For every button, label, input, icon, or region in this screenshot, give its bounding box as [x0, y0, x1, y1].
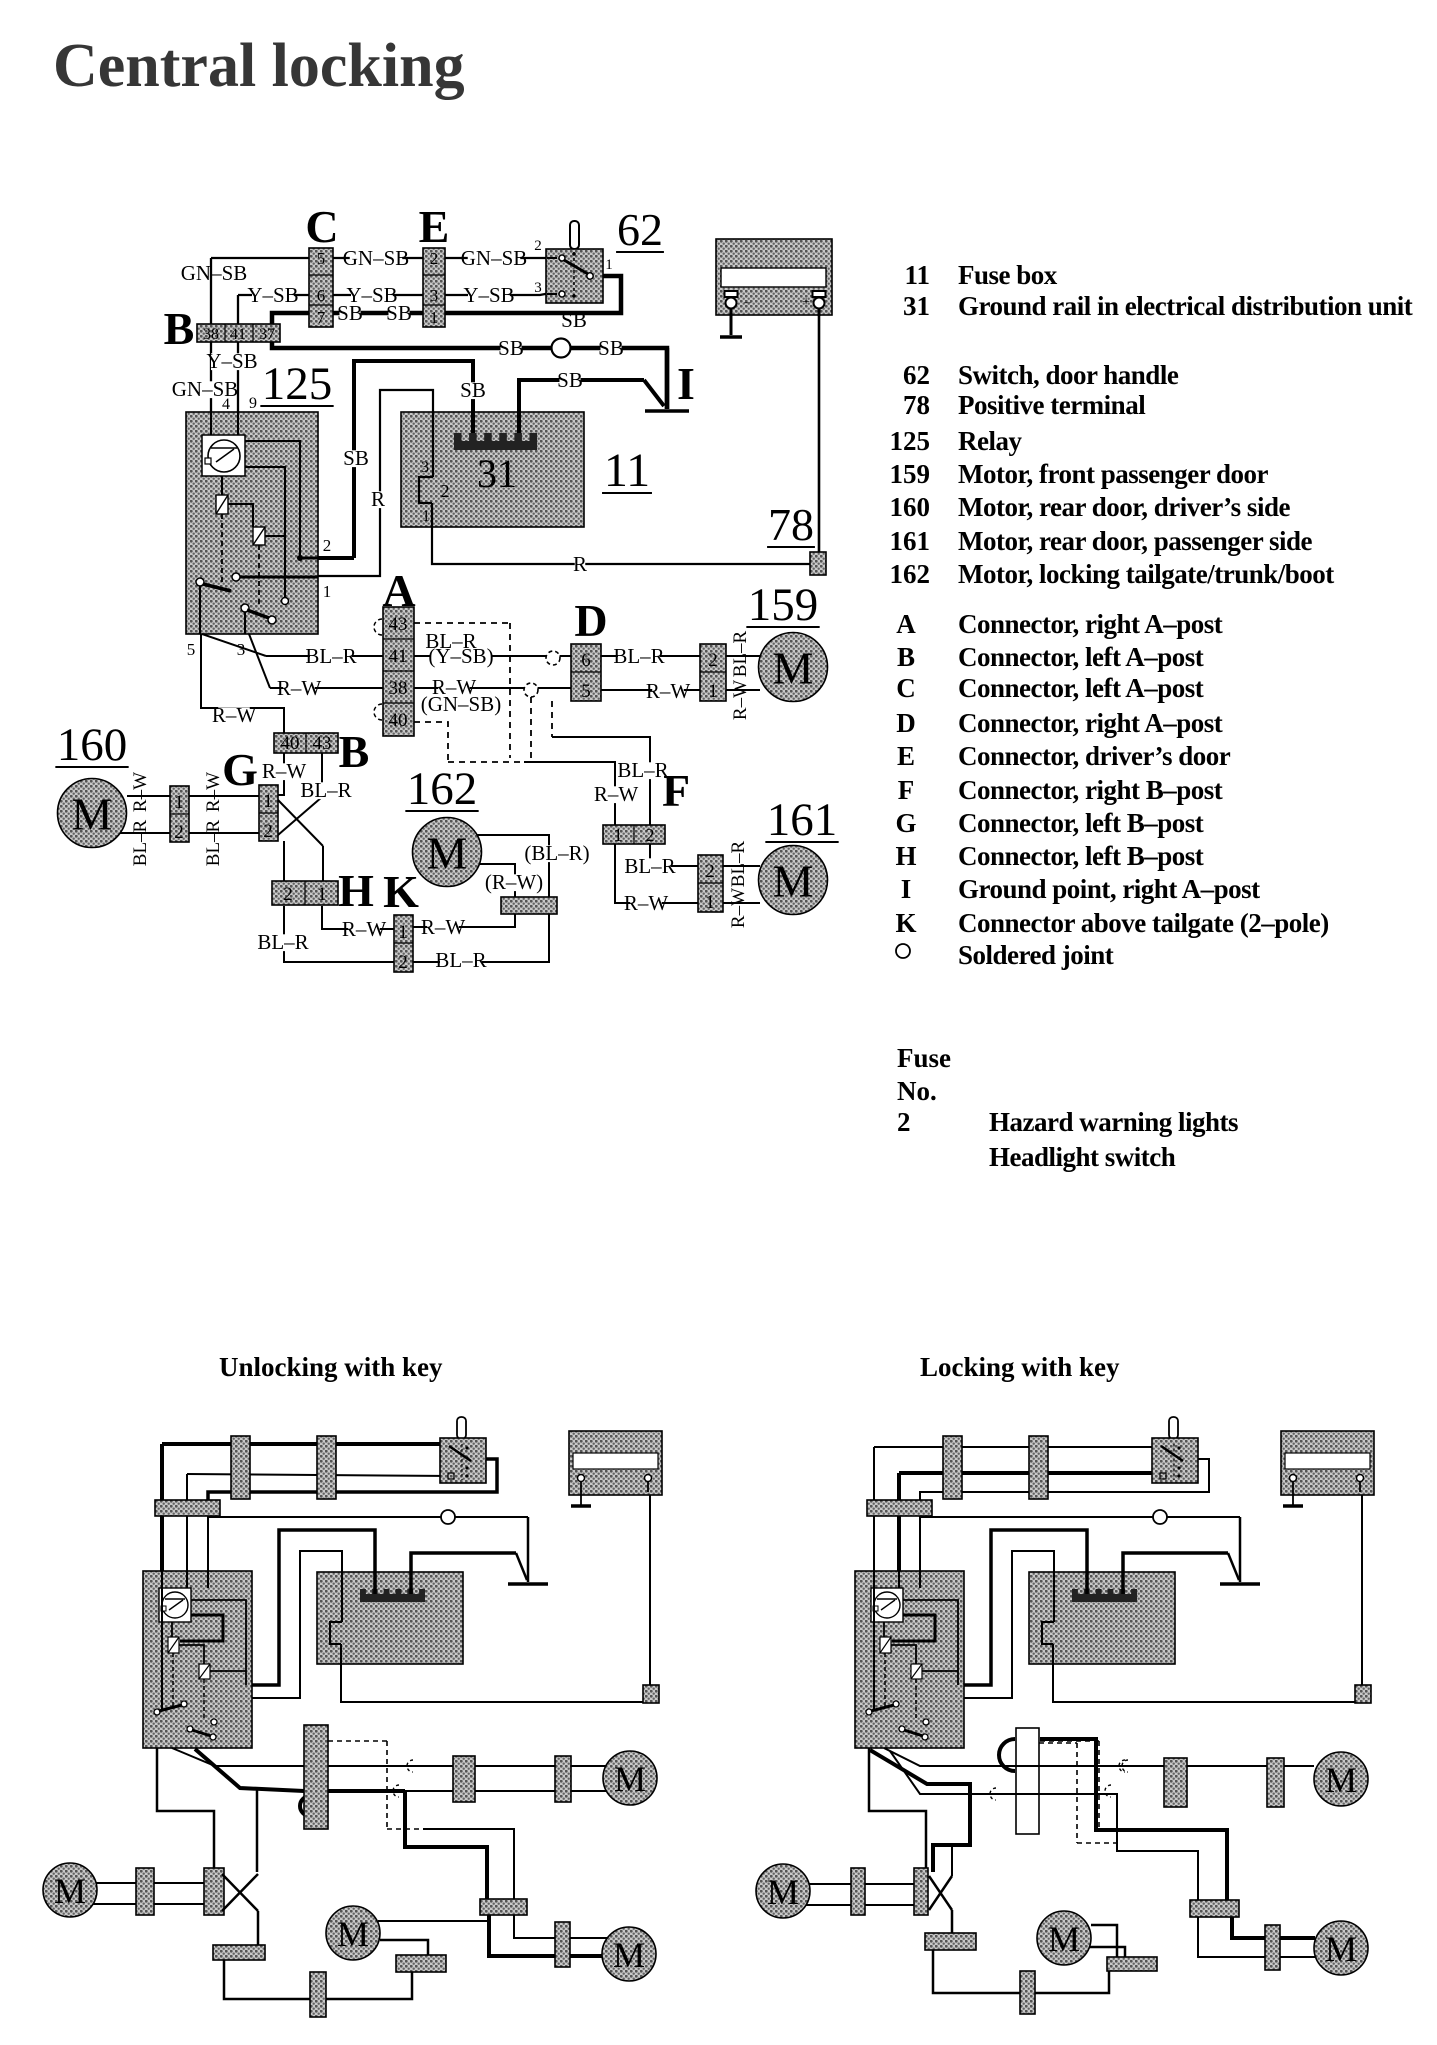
svg-text:C: C — [305, 201, 338, 252]
svg-text:1: 1 — [605, 257, 613, 273]
svg-text:Connector, left A–post: Connector, left A–post — [958, 642, 1204, 672]
svg-text:M: M — [72, 789, 113, 840]
svg-text:BL–R: BL–R — [203, 819, 224, 866]
svg-text:Connector, driver’s door: Connector, driver’s door — [958, 741, 1231, 771]
svg-text:159: 159 — [890, 459, 931, 489]
svg-text:BL–R: BL–R — [130, 819, 151, 866]
svg-text:Connector, left B–post: Connector, left B–post — [958, 808, 1204, 838]
svg-text:I: I — [901, 874, 912, 904]
svg-text:(Y–SB): (Y–SB) — [428, 644, 493, 668]
svg-text:7: 7 — [317, 308, 326, 327]
svg-text:41: 41 — [230, 326, 246, 343]
svg-text:Ground point, right A–post: Ground point, right A–post — [958, 874, 1260, 904]
svg-text:Motor, locking tailgate/trunk/: Motor, locking tailgate/trunk/boot — [958, 559, 1334, 589]
svg-text:B: B — [339, 726, 370, 777]
svg-text:Motor, rear door, passenger si: Motor, rear door, passenger side — [958, 526, 1313, 556]
svg-text:3: 3 — [237, 640, 246, 659]
svg-text:1: 1 — [263, 791, 273, 812]
svg-text:BL–R: BL–R — [305, 644, 356, 668]
svg-text:40: 40 — [281, 733, 300, 754]
svg-text:62: 62 — [903, 360, 930, 390]
svg-text:A: A — [382, 565, 415, 616]
svg-text:R–W: R–W — [421, 915, 466, 939]
svg-text:No.: No. — [897, 1076, 937, 1106]
svg-text:SB: SB — [343, 446, 369, 470]
svg-text:160: 160 — [57, 719, 128, 771]
svg-text:M: M — [337, 1914, 369, 1954]
svg-text:BL–R: BL–R — [435, 948, 486, 972]
svg-text:Hazard warning lights: Hazard warning lights — [989, 1107, 1238, 1137]
svg-text:SB: SB — [598, 336, 624, 360]
svg-text:3: 3 — [421, 459, 429, 476]
svg-text:41: 41 — [389, 646, 408, 667]
svg-text:(R–W): (R–W) — [485, 870, 543, 894]
svg-text:C: C — [896, 673, 916, 703]
svg-text:1: 1 — [323, 582, 332, 601]
svg-text:R–W: R–W — [730, 680, 751, 720]
svg-text:Connector, right A–post: Connector, right A–post — [958, 609, 1223, 639]
svg-text:31: 31 — [903, 291, 930, 321]
svg-text:Connector, right A–post: Connector, right A–post — [958, 708, 1223, 738]
svg-text:Fuse box: Fuse box — [958, 260, 1058, 290]
svg-text:Ground rail in electrical dist: Ground rail in electrical distribution u… — [958, 291, 1413, 321]
svg-text:R–W: R–W — [130, 772, 151, 812]
svg-text:H: H — [338, 865, 374, 916]
svg-text:78: 78 — [903, 390, 930, 420]
svg-text:1: 1 — [614, 825, 623, 845]
svg-text:E: E — [897, 741, 915, 771]
svg-text:Motor, rear door, driver’s sid: Motor, rear door, driver’s side — [958, 492, 1290, 522]
svg-text:78: 78 — [768, 499, 814, 550]
svg-text:38: 38 — [389, 678, 408, 699]
svg-text:B: B — [164, 303, 195, 354]
svg-text:(BL–R): (BL–R) — [524, 841, 589, 865]
svg-text:D: D — [574, 595, 607, 646]
svg-text:R–W: R–W — [594, 782, 639, 806]
svg-text:Fuse: Fuse — [897, 1043, 951, 1073]
svg-text:1: 1 — [705, 892, 715, 913]
svg-text:2: 2 — [263, 821, 273, 842]
svg-text:R–W: R–W — [277, 676, 322, 700]
svg-text:R–W: R–W — [728, 888, 749, 928]
svg-text:K: K — [895, 908, 916, 938]
svg-text:SB: SB — [498, 336, 524, 360]
svg-text:M: M — [1048, 1919, 1080, 1959]
svg-text:162: 162 — [890, 559, 931, 589]
svg-text:I: I — [677, 358, 695, 409]
svg-text:Headlight switch: Headlight switch — [989, 1142, 1176, 1172]
svg-text:31: 31 — [477, 451, 517, 496]
svg-text:M: M — [1325, 1929, 1357, 1969]
svg-text:GN–SB: GN–SB — [461, 246, 528, 270]
svg-text:–: – — [743, 294, 751, 309]
svg-text:1: 1 — [174, 792, 184, 813]
svg-text:B: B — [897, 642, 915, 672]
svg-text:1: 1 — [317, 884, 327, 905]
svg-text:3: 3 — [534, 280, 542, 296]
svg-text:37: 37 — [259, 326, 275, 343]
svg-text:Motor, front passenger door: Motor, front passenger door — [958, 459, 1269, 489]
svg-text:SB: SB — [460, 378, 486, 402]
svg-text:M: M — [614, 1759, 646, 1799]
svg-text:6: 6 — [581, 650, 591, 671]
svg-text:R–W: R–W — [342, 917, 387, 941]
svg-text:Central locking: Central locking — [53, 32, 465, 100]
svg-text:BL–R: BL–R — [300, 778, 351, 802]
svg-text:Connector above tailgate (2–po: Connector above tailgate (2–pole) — [958, 908, 1329, 938]
svg-text:SB: SB — [337, 301, 363, 325]
svg-text:M: M — [767, 1872, 799, 1912]
svg-text:Soldered joint: Soldered joint — [958, 940, 1114, 970]
svg-text:43: 43 — [313, 733, 332, 754]
svg-text:Relay: Relay — [958, 426, 1022, 456]
svg-text:R–W: R–W — [646, 679, 691, 703]
svg-text:2: 2 — [323, 536, 332, 555]
svg-text:Connector, right B–post: Connector, right B–post — [958, 775, 1223, 805]
svg-text:6: 6 — [317, 286, 326, 305]
svg-text:5: 5 — [581, 681, 591, 702]
svg-text:2: 2 — [708, 650, 718, 671]
svg-text:Y–SB: Y–SB — [463, 283, 514, 307]
svg-text:2: 2 — [534, 238, 542, 254]
svg-text:BL–R: BL–R — [730, 630, 751, 677]
svg-text:5: 5 — [187, 640, 196, 659]
svg-text:2: 2 — [897, 1107, 911, 1137]
svg-text:R–W: R–W — [624, 891, 669, 915]
svg-text:125: 125 — [890, 426, 931, 456]
svg-text:162: 162 — [407, 763, 478, 815]
svg-text:Positive terminal: Positive terminal — [958, 390, 1146, 420]
svg-text:1: 1 — [708, 681, 718, 702]
svg-text:161: 161 — [767, 794, 838, 846]
svg-text:(GN–SB): (GN–SB) — [421, 692, 502, 716]
svg-text:161: 161 — [890, 526, 931, 556]
svg-text:2: 2 — [441, 481, 450, 501]
svg-text:D: D — [896, 708, 916, 738]
svg-text:2: 2 — [283, 884, 293, 905]
svg-text:43: 43 — [389, 614, 408, 635]
svg-text:Connector, left B–post: Connector, left B–post — [958, 841, 1204, 871]
svg-text:1: 1 — [422, 508, 430, 525]
svg-text:R: R — [371, 487, 385, 511]
svg-text:M: M — [773, 856, 814, 907]
svg-text:SB: SB — [386, 301, 412, 325]
svg-text:GN–SB: GN–SB — [181, 261, 248, 285]
svg-text:R–W: R–W — [212, 703, 257, 727]
svg-text:R: R — [573, 552, 587, 576]
svg-text:38: 38 — [203, 326, 219, 343]
svg-text:BL–R: BL–R — [617, 758, 668, 782]
svg-text:SB: SB — [557, 368, 583, 392]
svg-text:BL–R: BL–R — [257, 930, 308, 954]
svg-text:62: 62 — [617, 204, 663, 255]
svg-text:11: 11 — [904, 260, 930, 290]
svg-text:160: 160 — [890, 492, 931, 522]
svg-text:+: + — [802, 295, 810, 310]
svg-text:SB: SB — [561, 308, 587, 332]
svg-text:G: G — [222, 744, 258, 795]
svg-text:GN–SB: GN–SB — [343, 246, 410, 270]
svg-text:Y–SB: Y–SB — [206, 349, 257, 373]
svg-text:BL–R: BL–R — [728, 840, 749, 887]
svg-text:Locking with key: Locking with key — [920, 1352, 1120, 1382]
svg-text:BL–R: BL–R — [624, 854, 675, 878]
svg-text:2: 2 — [398, 952, 408, 973]
svg-text:M: M — [54, 1871, 86, 1911]
svg-text:2: 2 — [174, 822, 184, 843]
svg-text:Unlocking with key: Unlocking with key — [219, 1352, 443, 1382]
svg-text:9: 9 — [249, 395, 257, 412]
svg-text:Connector, left A–post: Connector, left A–post — [958, 673, 1204, 703]
svg-text:2: 2 — [646, 825, 655, 845]
svg-text:2: 2 — [705, 861, 715, 882]
svg-text:1: 1 — [398, 922, 408, 943]
svg-text:F: F — [898, 775, 915, 805]
svg-text:Switch, door handle: Switch, door handle — [958, 360, 1179, 390]
svg-text:4: 4 — [222, 396, 230, 413]
svg-text:H: H — [895, 841, 916, 871]
svg-text:3: 3 — [430, 286, 439, 305]
svg-text:A: A — [896, 609, 916, 639]
svg-text:E: E — [419, 201, 450, 252]
svg-text:Y–SB: Y–SB — [247, 283, 298, 307]
svg-text:BL–R: BL–R — [613, 644, 664, 668]
svg-text:1: 1 — [430, 308, 439, 327]
svg-text:R–W: R–W — [203, 772, 224, 812]
svg-text:G: G — [895, 808, 916, 838]
svg-text:125: 125 — [262, 358, 333, 410]
svg-text:M: M — [427, 828, 468, 879]
svg-text:M: M — [773, 643, 814, 694]
svg-text:159: 159 — [748, 579, 819, 631]
svg-text:M: M — [613, 1935, 645, 1975]
svg-text:K: K — [383, 866, 419, 917]
svg-text:40: 40 — [389, 710, 408, 731]
svg-text:M: M — [1325, 1760, 1357, 1800]
svg-text:11: 11 — [604, 444, 650, 497]
